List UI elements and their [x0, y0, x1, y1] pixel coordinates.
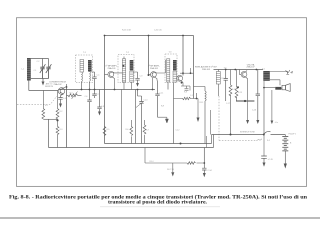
inductor T1 secondary: [88, 60, 92, 81]
wire driver rail: [214, 69, 264, 71]
svg-text:2SA-101: 2SA-101: [107, 67, 116, 70]
svg-text:R-3: R-3: [60, 129, 63, 131]
wire TR3 emitter: [153, 77, 158, 89]
capacitor C8 ground: [97, 90, 101, 116]
svg-text:L-1: L-1: [22, 68, 25, 70]
node bias dot: [203, 162, 205, 164]
wire TR2 emitter: [113, 77, 115, 89]
node junction dot: [56, 119, 58, 121]
svg-text:2SB-105: 2SB-105: [202, 69, 211, 71]
capacitor C9 right of T2: [133, 72, 139, 87]
svg-text:C-12: C-12: [190, 95, 194, 97]
inductor T2 primary: [122, 57, 125, 90]
svg-text:C-16: C-16: [252, 110, 256, 112]
transistor TR4 detector: [177, 75, 183, 81]
svg-text:R-12: R-12: [232, 89, 236, 91]
svg-text:C-9: C-9: [140, 76, 143, 78]
ground arrow tuning: [42, 79, 45, 86]
svg-text:R-14: R-14: [150, 161, 154, 163]
wire mech link dashed vertical: [218, 96, 220, 141]
svg-text:transistore al posto del diodo: transistore al posto del diodo rivelator…: [108, 200, 208, 206]
wire TR5 collector: [246, 71, 247, 72]
resistor R7: [143, 120, 146, 144]
transformer T2 dashed box: [118, 55, 134, 83]
svg-text:B: B: [290, 142, 292, 144]
antenna coil L1: [27, 58, 31, 81]
transistor TR1 converter: [58, 88, 65, 95]
node rail dots: [81, 89, 154, 91]
svg-text:R-1: R-1: [45, 105, 48, 107]
node feed dots: [230, 134, 232, 136]
capacitor C3 emitter: [58, 94, 63, 108]
svg-text:PILA 9 V: PILA 9 V: [289, 132, 297, 135]
resistor R4 horizontal: [67, 92, 82, 100]
node TR1 dots: [66, 86, 68, 88]
capacitor C6: [87, 90, 91, 148]
ground arrow emitter: [246, 101, 249, 124]
wire switch feed: [212, 134, 264, 136]
wire AGC drop to TR4: [182, 36, 184, 76]
resistor R2: [56, 91, 59, 120]
node dot TR4: [181, 82, 183, 84]
svg-text:R-13: R-13: [238, 92, 242, 94]
svg-text:R-6: R-6: [126, 129, 129, 131]
ground arrow bias: [171, 163, 174, 177]
transistor TR5 output: [241, 72, 247, 78]
svg-text:C-10: C-10: [144, 100, 148, 102]
inductor T1 primary: [80, 60, 84, 82]
inductor T2 secondary: [130, 60, 134, 90]
wire T3 pins down: [168, 83, 174, 144]
svg-text:C-7: C-7: [97, 94, 100, 96]
transformer T4 driver: [216, 72, 220, 85]
wire x206 crossing: [206, 136, 208, 148]
svg-text:C-11: C-11: [160, 93, 164, 95]
svg-text:C-8: C-8: [101, 106, 104, 108]
svg-text:C-12: C-12: [176, 130, 180, 132]
svg-text:C-17: C-17: [226, 103, 230, 105]
svg-text:2SA-101: 2SA-101: [150, 67, 159, 70]
transformer T5 output: [263, 71, 270, 81]
node rail dots right: [225, 69, 257, 71]
wire detector top rail: [180, 72, 194, 74]
svg-text:C-2: C-2: [37, 61, 40, 63]
wire TR1 collector: [64, 84, 67, 88]
svg-text:T-2: T-2: [126, 52, 130, 54]
svg-text:R-9: R-9: [161, 105, 164, 107]
node dot T2 top: [123, 65, 125, 67]
potentiometer R11 volume: [194, 87, 207, 144]
capacitor C14 below bus: [202, 148, 212, 178]
svg-text:C-5: C-5: [97, 75, 100, 77]
border frame: [17, 18, 307, 187]
speaker SP: [282, 84, 290, 92]
transistor TR2 first IF: [108, 72, 114, 78]
node bar dot: [244, 100, 246, 102]
svg-text:T-1: T-1: [83, 52, 87, 54]
svg-text:C-6: C-6: [85, 96, 88, 98]
capacitor C5 right of T1: [92, 72, 97, 90]
wire osc feedback: [66, 87, 68, 148]
svg-text:INTERRUTTORE: INTERRUTTORE: [240, 132, 256, 134]
svg-text:R-2: R-2: [60, 111, 63, 113]
earphone jack J1: [286, 70, 293, 75]
wire x190 down: [189, 68, 192, 91]
svg-text:3V-C 1,5: 3V-C 1,5: [167, 169, 174, 171]
svg-text:R-8: R-8: [184, 92, 187, 94]
node misc labels: [34, 61, 242, 131]
wire T2 secondary down: [136, 90, 138, 144]
inductor T3 secondary: [173, 60, 177, 82]
svg-text:2SB-107: 2SB-107: [246, 67, 255, 69]
svg-text:C-14: C-14: [208, 170, 212, 172]
switch tilde mark: [257, 139, 263, 141]
ground arrow x272: [271, 90, 274, 124]
capacitor C11: [155, 81, 159, 118]
svg-text:T-3: T-3: [169, 51, 173, 53]
svg-text:2SA-102: 2SA-102: [53, 83, 62, 86]
svg-text:R-11: R-11: [200, 102, 204, 104]
resistor R13: [235, 70, 239, 102]
transformer T3 dashed box: [165, 54, 177, 83]
resistor R9 horizontal: [174, 93, 198, 100]
battery B1: [282, 137, 288, 169]
capacitor C19: [261, 135, 273, 167]
wire T5 left pin down: [263, 81, 265, 88]
footer smudge: [100, 206, 220, 207]
svg-text:T-5: T-5: [262, 68, 266, 70]
bus A line: [105, 143, 212, 145]
svg-text:+9 v: +9 v: [275, 122, 279, 124]
svg-text:FERRITE: FERRITE: [45, 86, 54, 88]
resistor R6: [130, 120, 133, 144]
wire TR4 emitter row: [181, 81, 190, 90]
wire TR3 collector: [155, 60, 165, 73]
wire bus B left riser: [48, 119, 50, 147]
wire bias line below bus: [145, 148, 187, 164]
wire mech link dashed horizontal: [219, 140, 257, 142]
wire AGC drop to TR3: [148, 36, 150, 76]
resistor R12: [229, 70, 232, 135]
volume pot wiper arrow: [197, 99, 200, 123]
wire T5 bottom to speaker: [270, 80, 280, 86]
wire T1 pins down: [82, 82, 90, 90]
wire TR5 emitter: [246, 77, 248, 101]
wire emitter bar: [236, 100, 254, 102]
svg-text:+C-19: +C-19: [268, 159, 273, 161]
wire detector line: [193, 36, 195, 99]
wire antenna top: [31, 59, 49, 68]
wire TR2 collector to T2: [113, 72, 124, 73]
resistor R3: [56, 120, 59, 147]
capacitor C15: [224, 70, 228, 102]
wire emitter rail: [58, 89, 155, 91]
rule: [0, 217, 320, 219]
wire x264 down to switch: [263, 88, 265, 135]
thermistor RT: [263, 87, 282, 90]
node bus A dot: [180, 143, 182, 145]
resistor R1: [42, 91, 45, 120]
wire AGC drop to TR2: [104, 36, 106, 144]
svg-text:C-3: C-3: [63, 98, 66, 100]
capacitor C1B variable: [46, 64, 52, 78]
wire x210 riser: [210, 110, 212, 135]
wire resistor bottoms: [43, 118, 57, 120]
wire TR2 base: [105, 73, 108, 75]
wire x121 down: [121, 90, 123, 144]
wire T4 top pin: [217, 70, 219, 97]
wire gang link dashed: [17, 96, 57, 105]
capacitor C7: [92, 90, 96, 99]
capacitor C16: [256, 70, 260, 125]
node bus dots: [104, 35, 106, 37]
svg-text:C-15: C-15: [221, 78, 225, 80]
wire TR5 base: [240, 70, 242, 75]
inductor T3 primary: [167, 59, 170, 82]
svg-text:R-7: R-7: [146, 130, 149, 132]
svg-text:S-1: S-1: [267, 140, 270, 142]
resistor R5 on AGC drop: [103, 127, 106, 136]
transistor TR3 second IF: [151, 72, 157, 78]
switch S1 blade: [264, 131, 271, 134]
wire AGC bus: [105, 35, 194, 37]
wire bus risers: [212, 135, 214, 148]
transformer T1 dashed box: [76, 55, 93, 83]
svg-text:C-30 .05: C-30 .05: [154, 30, 163, 32]
node dots detector: [182, 72, 184, 74]
wire switch to battery: [271, 135, 286, 137]
wire antenna bottom: [29, 79, 59, 91]
resistor R14 horizontal: [187, 162, 204, 165]
node TR3 base dot: [148, 74, 150, 76]
bus B line: [49, 147, 214, 149]
wire trimmer arrow: [136, 102, 144, 108]
svg-text:R-4: R-4: [70, 93, 73, 95]
wire TR3 base: [149, 74, 151, 76]
svg-text:C-1: C-1: [34, 70, 37, 72]
svg-text:R-5: R-5: [107, 129, 110, 131]
capacitor C10: [138, 96, 144, 144]
svg-text:R-16 1.5K: R-16 1.5K: [122, 30, 132, 32]
ground arrow C11: [158, 117, 169, 123]
wire T5 top to jack: [270, 72, 288, 75]
capacitor C1A variable: [40, 64, 46, 78]
